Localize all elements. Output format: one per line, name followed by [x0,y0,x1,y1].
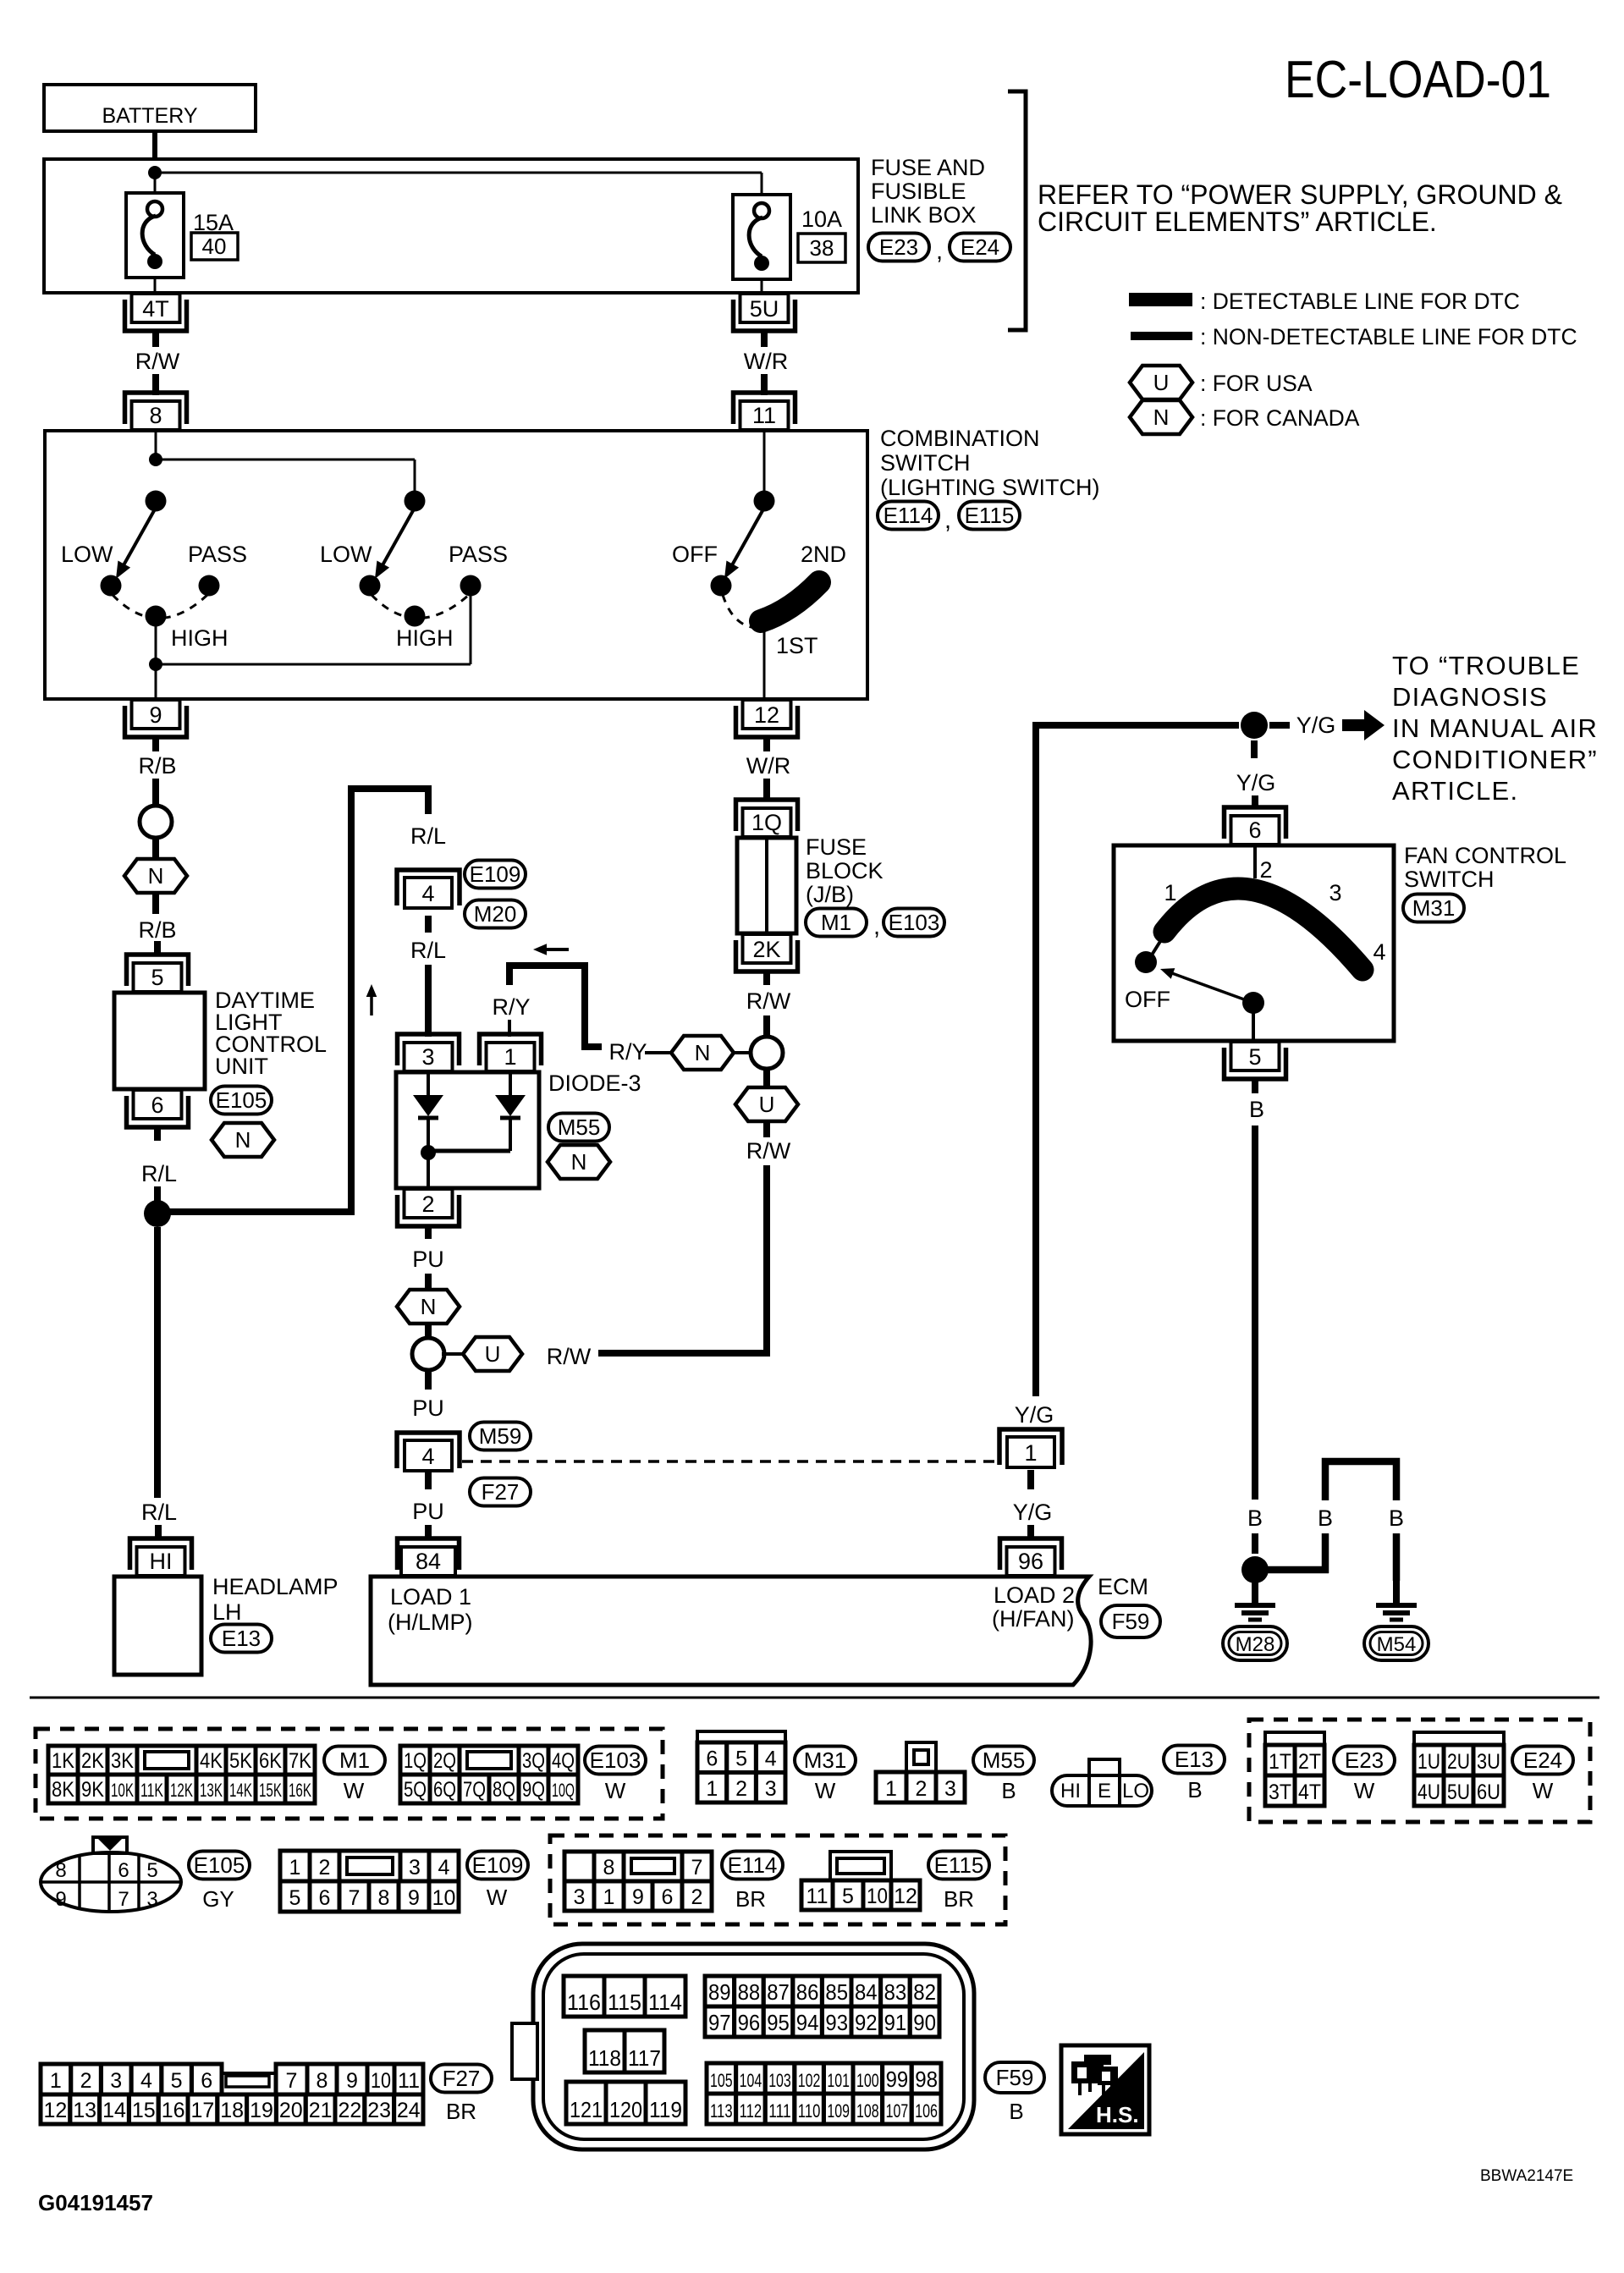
svg-text:6: 6 [1248,817,1261,843]
svg-text:: DETECTABLE LINE FOR DTC: : DETECTABLE LINE FOR DTC [1200,289,1520,314]
svg-text:1Q: 1Q [404,1749,427,1773]
svg-text:B: B [1187,1777,1202,1802]
svg-text:BATTERY: BATTERY [102,104,198,128]
svg-text:1: 1 [50,2069,62,2093]
svg-text:12K: 12K [170,1780,193,1801]
svg-text:E115: E115 [934,1852,984,1878]
svg-text:CIRCUIT ELEMENTS” ARTICLE.: CIRCUIT ELEMENTS” ARTICLE. [1038,206,1437,237]
svg-text:97: 97 [708,2010,731,2035]
svg-text:3: 3 [574,1885,586,1909]
svg-text:88: 88 [738,1979,761,2005]
svg-text:105: 105 [710,2070,733,2091]
svg-text:6U: 6U [1477,1780,1500,1804]
svg-text:4T: 4T [1298,1780,1321,1804]
svg-text:1U: 1U [1418,1750,1440,1774]
svg-text:E13: E13 [1175,1747,1214,1772]
svg-text:DIAGNOSIS: DIAGNOSIS [1392,682,1548,712]
svg-text:W: W [605,1778,626,1803]
svg-text:EC-LOAD-01: EC-LOAD-01 [1285,51,1551,109]
svg-text:5: 5 [735,1747,747,1771]
svg-text:4: 4 [765,1747,777,1771]
svg-text:84: 84 [855,1979,878,2005]
svg-text:E114: E114 [884,503,933,528]
svg-text:90: 90 [913,2010,936,2035]
svg-text:IN MANUAL AIR: IN MANUAL AIR [1392,713,1598,743]
svg-text:5: 5 [289,1886,301,1910]
svg-text:12: 12 [754,702,779,728]
svg-text:10A: 10A [801,206,842,232]
svg-text:LOAD 1: LOAD 1 [390,1584,471,1610]
svg-text:9: 9 [346,2069,358,2093]
svg-text:3: 3 [765,1777,777,1801]
svg-text:14: 14 [102,2099,126,2122]
svg-text:B: B [1001,1778,1016,1803]
svg-text:2: 2 [319,1856,331,1879]
svg-text:N: N [695,1040,711,1065]
svg-text:ECM: ECM [1098,1574,1148,1599]
svg-text:E109: E109 [470,861,521,887]
svg-text:113: 113 [710,2100,733,2122]
svg-text:Y/G: Y/G [1013,1500,1053,1525]
svg-text:89: 89 [708,1979,731,2005]
svg-text:3T: 3T [1269,1780,1291,1804]
svg-text:4Q: 4Q [552,1749,575,1773]
svg-text:117: 117 [628,2045,661,2071]
svg-text:7Q: 7Q [463,1778,486,1802]
svg-text:119: 119 [649,2097,682,2122]
svg-text:FUSE: FUSE [806,834,867,860]
svg-text:Y/G: Y/G [1296,713,1336,738]
svg-text:BBWA2147E: BBWA2147E [1480,2167,1573,2185]
svg-text:5U: 5U [1447,1780,1470,1804]
svg-text:N: N [148,863,164,889]
svg-text:,: , [873,913,880,940]
svg-text:9K: 9K [81,1778,104,1802]
svg-text:R/W: R/W [135,349,180,374]
svg-text:7: 7 [691,1856,703,1879]
svg-text:HI: HI [1060,1780,1081,1802]
svg-text:(J/B): (J/B) [806,882,854,907]
svg-text:N: N [571,1149,587,1175]
svg-text:W/R: W/R [744,349,788,374]
svg-text:E24: E24 [961,234,999,260]
svg-text:106: 106 [915,2100,938,2122]
svg-text:PASS: PASS [188,542,247,567]
svg-text:E: E [1098,1780,1111,1802]
svg-text:M1: M1 [821,910,851,935]
svg-text:E103: E103 [590,1747,641,1773]
svg-text:CONDITIONER”: CONDITIONER” [1392,745,1598,774]
svg-text:SWITCH: SWITCH [880,450,970,476]
svg-text:4: 4 [140,2069,152,2093]
svg-text:DIODE-3: DIODE-3 [548,1070,641,1096]
svg-text:E114: E114 [728,1852,778,1878]
svg-text:21: 21 [309,2099,333,2122]
svg-text:R/L: R/L [410,938,446,963]
svg-text:19: 19 [250,2099,273,2122]
svg-text:M31: M31 [1412,895,1456,921]
svg-text:6: 6 [118,1859,129,1882]
svg-text:M1: M1 [339,1747,370,1773]
svg-text:4: 4 [438,1856,450,1879]
svg-text:8: 8 [55,1859,66,1882]
svg-text:10: 10 [371,2069,391,2093]
svg-text:U: U [485,1341,501,1367]
svg-text:E13: E13 [222,1626,261,1651]
svg-text:11: 11 [752,403,776,428]
svg-text:M55: M55 [983,1747,1026,1773]
svg-text:E23: E23 [879,234,918,260]
svg-text:5K: 5K [229,1749,252,1773]
svg-text:PU: PU [412,1395,444,1421]
svg-text:13: 13 [73,2099,96,2122]
svg-text:102: 102 [798,2070,821,2091]
svg-text:M55: M55 [558,1114,601,1140]
svg-text:6: 6 [151,1092,163,1118]
svg-text:9: 9 [55,1888,66,1911]
svg-text:FAN CONTROL: FAN CONTROL [1404,843,1566,868]
svg-text:38: 38 [810,235,834,261]
svg-text:F59: F59 [1112,1609,1150,1634]
svg-text:10: 10 [432,1886,456,1910]
svg-text:2: 2 [1259,857,1272,883]
svg-text:4: 4 [1373,939,1385,965]
svg-text:16K: 16K [289,1780,311,1801]
svg-text:: FOR CANADA: : FOR CANADA [1200,405,1360,431]
svg-text:,: , [944,507,951,534]
svg-text:120: 120 [609,2097,642,2122]
svg-text:5: 5 [1248,1044,1261,1070]
svg-text:1K: 1K [52,1749,74,1773]
svg-text:PU: PU [412,1247,444,1272]
svg-text:OFF: OFF [1125,987,1170,1012]
svg-text:R/L: R/L [410,823,446,849]
svg-text:R/Y: R/Y [492,994,530,1020]
svg-text:W: W [1533,1778,1554,1803]
svg-text:22: 22 [338,2099,361,2122]
svg-text:9: 9 [408,1886,420,1910]
svg-text:100: 100 [856,2070,879,2091]
svg-text:Y/G: Y/G [1015,1402,1054,1428]
svg-text:R/Y: R/Y [608,1039,647,1065]
svg-text:LH: LH [212,1599,242,1625]
svg-text:GY: GY [202,1886,234,1912]
svg-text:96: 96 [1018,1549,1043,1574]
svg-text:111: 111 [768,2100,791,2122]
svg-text:Y/G: Y/G [1236,770,1276,795]
svg-text:13K: 13K [200,1780,223,1801]
svg-text:85: 85 [825,1979,848,2005]
svg-text:9Q: 9Q [522,1778,545,1802]
svg-text:E115: E115 [965,503,1015,528]
svg-text:N: N [421,1294,437,1319]
svg-text:4T: 4T [142,296,169,322]
svg-text:10: 10 [867,1885,888,1908]
svg-text:E24: E24 [1523,1747,1562,1773]
svg-text:HI: HI [150,1549,173,1574]
svg-text:101: 101 [827,2070,850,2091]
svg-text:114: 114 [648,1990,682,2015]
svg-text:W: W [1354,1778,1375,1803]
svg-text:3: 3 [1329,880,1341,905]
svg-text:ARTICLE.: ARTICLE. [1392,776,1518,806]
svg-text:2: 2 [421,1192,434,1217]
svg-text:R/W: R/W [746,988,791,1014]
svg-text:6K: 6K [259,1749,282,1773]
svg-text:R/W: R/W [547,1344,592,1369]
svg-text:5: 5 [171,2069,183,2093]
svg-text:2ND: 2ND [801,542,846,567]
svg-text:8: 8 [378,1886,390,1910]
svg-text:87: 87 [767,1979,790,2005]
svg-text:2K: 2K [752,937,780,962]
svg-text:20: 20 [279,2099,303,2122]
svg-text:M54: M54 [1377,1633,1417,1656]
svg-text:3: 3 [409,1856,421,1879]
svg-text:R/L: R/L [141,1161,177,1186]
svg-text:BR: BR [735,1886,766,1912]
svg-text:6: 6 [662,1885,674,1909]
svg-text:3U: 3U [1477,1750,1500,1774]
svg-text:E105: E105 [194,1852,245,1878]
svg-text:1: 1 [504,1044,516,1070]
svg-text:8K: 8K [52,1778,74,1802]
svg-text:7K: 7K [289,1749,311,1773]
svg-text:LOAD 2: LOAD 2 [994,1582,1075,1608]
svg-text:B: B [1389,1505,1404,1531]
svg-text:9: 9 [632,1885,644,1909]
svg-text:6: 6 [706,1747,718,1771]
svg-text:BR: BR [944,1886,974,1912]
svg-text:HEADLAMP: HEADLAMP [212,1574,339,1599]
svg-text:23: 23 [367,2099,391,2122]
svg-text:11: 11 [398,2069,420,2093]
svg-text:3Q: 3Q [522,1749,545,1773]
svg-text:11: 11 [806,1885,829,1908]
svg-text:HIGH: HIGH [171,625,228,651]
svg-text:7: 7 [349,1886,361,1910]
svg-text:8: 8 [149,403,162,428]
svg-text:116: 116 [567,1990,601,2015]
svg-text:OFF: OFF [672,542,718,567]
svg-text:M31: M31 [804,1747,847,1773]
svg-text:REFER TO “POWER SUPPLY, GROUND: REFER TO “POWER SUPPLY, GROUND & [1038,179,1562,210]
svg-text:FUSE AND: FUSE AND [871,155,985,180]
svg-text:1: 1 [1024,1440,1037,1466]
svg-text:R/L: R/L [141,1500,177,1525]
svg-text:5: 5 [842,1885,854,1908]
svg-text:3: 3 [110,2069,122,2093]
svg-text:1T: 1T [1269,1750,1291,1774]
svg-text:14K: 14K [229,1780,252,1801]
svg-text:COMBINATION: COMBINATION [880,426,1040,451]
svg-text:8: 8 [317,2069,328,2093]
svg-text:1Q: 1Q [751,810,782,835]
svg-text:,: , [936,238,943,265]
svg-text:115: 115 [608,1990,641,2015]
svg-text:3: 3 [421,1044,434,1070]
svg-text:LINK BOX: LINK BOX [871,202,977,228]
svg-text:BR: BR [446,2099,476,2124]
svg-text:2Q: 2Q [433,1749,456,1773]
svg-text:8: 8 [603,1856,615,1879]
svg-text:4: 4 [421,1444,434,1469]
svg-text:91: 91 [884,2010,907,2035]
svg-text:R/B: R/B [138,917,176,943]
svg-text:W: W [815,1778,836,1803]
svg-text:(H/FAN): (H/FAN) [992,1606,1075,1632]
svg-text:HIGH: HIGH [396,625,454,651]
svg-text:F59: F59 [996,2065,1034,2090]
svg-text:W: W [344,1778,365,1803]
svg-text:2: 2 [735,1777,747,1801]
svg-text:104: 104 [740,2070,762,2091]
svg-text:B: B [1247,1505,1263,1531]
svg-text:12: 12 [894,1885,917,1908]
svg-text:10K: 10K [111,1780,134,1801]
svg-text:W: W [487,1885,508,1910]
svg-text:E109: E109 [472,1852,524,1878]
svg-text:B: B [1318,1505,1333,1531]
svg-text:R/W: R/W [746,1138,791,1164]
svg-text:F27: F27 [482,1479,520,1505]
svg-text:15K: 15K [259,1780,282,1801]
svg-text:6: 6 [319,1886,331,1910]
svg-text:40: 40 [202,234,227,259]
svg-text:4K: 4K [200,1749,223,1773]
svg-text:1: 1 [885,1777,897,1801]
svg-text:E105: E105 [216,1087,267,1113]
svg-text:12: 12 [43,2099,67,2122]
svg-text:108: 108 [856,2100,879,2122]
svg-text:SWITCH: SWITCH [1404,867,1494,892]
svg-text:H.S.: H.S. [1096,2102,1139,2127]
svg-text:3: 3 [944,1777,956,1801]
svg-text:6Q: 6Q [433,1778,456,1802]
svg-text:BLOCK: BLOCK [806,858,884,883]
svg-text:3: 3 [146,1888,157,1911]
svg-text:5: 5 [151,965,163,990]
svg-text:16: 16 [162,2099,185,2122]
svg-text:109: 109 [827,2100,850,2122]
svg-text:82: 82 [913,1979,936,2005]
svg-text:: FOR USA: : FOR USA [1200,371,1313,396]
svg-text:15: 15 [132,2099,156,2122]
svg-text:N: N [1153,405,1170,430]
svg-text:PU: PU [412,1499,444,1524]
svg-text:B: B [1249,1097,1264,1122]
svg-text:24: 24 [397,2099,421,2122]
svg-text:UNIT: UNIT [215,1054,268,1079]
svg-text:FUSIBLE: FUSIBLE [871,179,966,204]
svg-text:93: 93 [825,2010,848,2035]
svg-text:(LIGHTING SWITCH): (LIGHTING SWITCH) [880,475,1099,500]
svg-text:8Q: 8Q [493,1778,515,1802]
svg-text:7: 7 [118,1888,129,1911]
svg-text:E103: E103 [889,910,940,935]
svg-text:2U: 2U [1447,1750,1470,1774]
svg-text:5Q: 5Q [404,1778,427,1802]
svg-text:LO: LO [1122,1780,1149,1802]
svg-text:5U: 5U [750,296,779,322]
svg-text:2: 2 [916,1777,928,1801]
svg-text:107: 107 [886,2100,909,2122]
svg-text:7: 7 [286,2069,298,2093]
svg-text:R/B: R/B [138,753,176,779]
svg-text:18: 18 [220,2099,244,2122]
svg-text:TO “TROUBLE: TO “TROUBLE [1392,651,1580,680]
svg-text:9: 9 [149,702,162,728]
svg-text:(H/LMP): (H/LMP) [388,1610,473,1635]
svg-text:103: 103 [768,2070,791,2091]
svg-text:PASS: PASS [449,542,508,567]
svg-text:1ST: 1ST [776,633,818,658]
svg-text:3K: 3K [111,1749,134,1773]
svg-text:1: 1 [603,1885,615,1909]
svg-text:N: N [235,1127,251,1153]
svg-text:96: 96 [738,2010,761,2035]
svg-text:5: 5 [146,1859,157,1882]
svg-text:86: 86 [796,1979,819,2005]
svg-text:2K: 2K [81,1749,104,1773]
svg-text:17: 17 [190,2099,214,2122]
svg-text:: NON-DETECTABLE LINE FOR DTC: : NON-DETECTABLE LINE FOR DTC [1200,324,1577,349]
svg-text:M59: M59 [479,1423,522,1449]
svg-text:92: 92 [855,2010,878,2035]
svg-text:F27: F27 [443,2066,481,2091]
svg-text:10Q: 10Q [552,1780,575,1801]
svg-text:E23: E23 [1345,1747,1384,1773]
svg-text:4: 4 [421,881,434,906]
svg-text:98: 98 [915,2067,938,2092]
svg-text:1: 1 [1164,880,1176,905]
svg-text:99: 99 [886,2067,909,2092]
svg-text:1: 1 [706,1777,718,1801]
svg-text:2: 2 [691,1885,703,1909]
svg-text:B: B [1009,2099,1023,2124]
svg-text:4U: 4U [1418,1780,1440,1804]
svg-text:1: 1 [289,1856,301,1879]
svg-text:110: 110 [798,2100,821,2122]
svg-text:U: U [1153,370,1170,395]
svg-text:83: 83 [884,1979,907,2005]
svg-text:M28: M28 [1236,1633,1275,1656]
svg-text:84: 84 [416,1549,441,1574]
svg-text:11K: 11K [140,1780,163,1801]
svg-text:6: 6 [201,2069,212,2093]
svg-text:112: 112 [740,2100,762,2122]
svg-text:M20: M20 [474,901,517,927]
svg-text:121: 121 [570,2097,603,2122]
svg-text:LOW: LOW [61,542,113,567]
svg-text:95: 95 [767,2010,790,2035]
svg-text:G04191457: G04191457 [38,2190,153,2215]
svg-text:2: 2 [80,2069,92,2093]
svg-text:118: 118 [588,2045,621,2071]
svg-text:94: 94 [796,2010,819,2035]
svg-text:LOW: LOW [320,542,372,567]
svg-text:2T: 2T [1298,1750,1321,1774]
svg-text:W/R: W/R [746,753,790,779]
svg-text:U: U [759,1092,775,1117]
